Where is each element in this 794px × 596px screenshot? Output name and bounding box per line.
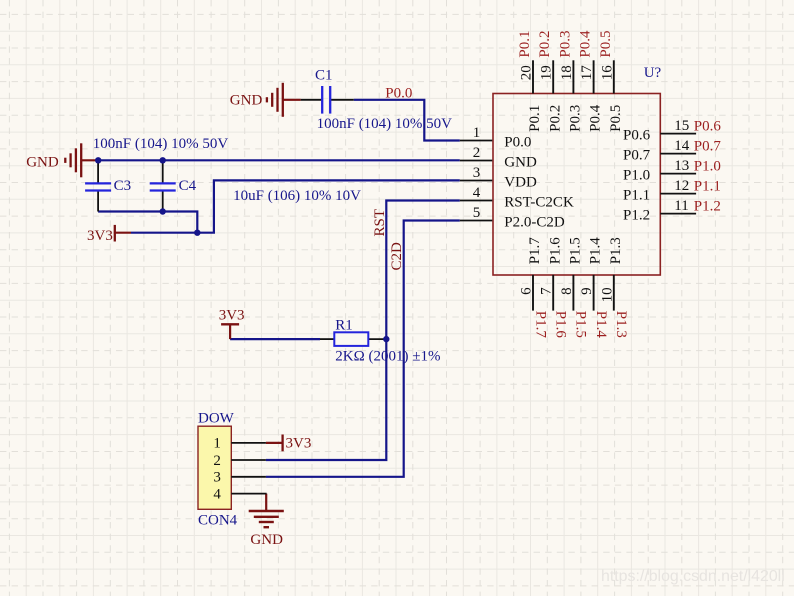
svg-text:P0.6: P0.6 bbox=[694, 119, 722, 135]
svg-text:10uF (106) 10% 10V: 10uF (106) 10% 10V bbox=[233, 188, 361, 204]
svg-text:CON4: CON4 bbox=[198, 513, 238, 529]
svg-text:5: 5 bbox=[473, 205, 481, 221]
svg-text:P0.4: P0.4 bbox=[588, 104, 604, 132]
svg-text:C3: C3 bbox=[114, 178, 132, 194]
svg-text:P0.2: P0.2 bbox=[547, 105, 563, 132]
svg-text:RST: RST bbox=[372, 209, 388, 237]
svg-text:GND: GND bbox=[504, 155, 537, 171]
svg-text:P1.0: P1.0 bbox=[623, 168, 650, 184]
svg-text:P0.4: P0.4 bbox=[578, 30, 594, 58]
svg-text:GND: GND bbox=[26, 154, 59, 170]
svg-text:P0.7: P0.7 bbox=[694, 139, 722, 155]
svg-text:3V3: 3V3 bbox=[219, 308, 245, 324]
svg-text:C2D: C2D bbox=[389, 242, 405, 271]
svg-text:3: 3 bbox=[213, 470, 221, 486]
svg-text:U?: U? bbox=[644, 65, 662, 81]
svg-text:RST-C2CK: RST-C2CK bbox=[504, 195, 574, 211]
svg-text:3: 3 bbox=[473, 165, 481, 181]
svg-text:100nF (104) 10% 50V: 100nF (104) 10% 50V bbox=[93, 136, 229, 152]
svg-text:P1.0: P1.0 bbox=[694, 159, 721, 175]
svg-text:P1.1: P1.1 bbox=[623, 188, 650, 204]
svg-text:19: 19 bbox=[539, 65, 555, 80]
svg-text:P0.2: P0.2 bbox=[537, 31, 553, 58]
svg-text:3V3: 3V3 bbox=[87, 228, 113, 244]
svg-text:8: 8 bbox=[559, 287, 575, 295]
svg-text:P1.1: P1.1 bbox=[694, 179, 721, 195]
svg-text:3V3: 3V3 bbox=[286, 436, 312, 452]
svg-text:20: 20 bbox=[519, 65, 535, 80]
svg-text:P1.2: P1.2 bbox=[623, 208, 650, 224]
svg-text:GND: GND bbox=[250, 532, 283, 548]
svg-text:P0.6: P0.6 bbox=[623, 128, 651, 144]
svg-text:6: 6 bbox=[519, 287, 535, 295]
svg-text:2: 2 bbox=[213, 453, 221, 469]
svg-text:P1.6: P1.6 bbox=[553, 311, 569, 339]
svg-text:15: 15 bbox=[674, 118, 689, 134]
svg-text:4: 4 bbox=[473, 185, 481, 201]
svg-text:P1.6: P1.6 bbox=[547, 237, 563, 265]
svg-text:9: 9 bbox=[579, 287, 595, 295]
svg-text:2: 2 bbox=[473, 145, 481, 161]
svg-text:VDD: VDD bbox=[504, 175, 537, 191]
svg-text:12: 12 bbox=[674, 178, 689, 194]
svg-text:10: 10 bbox=[599, 287, 615, 302]
svg-text:11: 11 bbox=[674, 198, 688, 214]
svg-text:P0.0: P0.0 bbox=[504, 135, 531, 151]
svg-text:P1.5: P1.5 bbox=[568, 237, 584, 264]
svg-text:GND: GND bbox=[230, 92, 263, 108]
svg-text:P1.4: P1.4 bbox=[593, 311, 609, 339]
svg-text:https://blog.csdn.net/l420ll: https://blog.csdn.net/l420ll bbox=[601, 568, 785, 585]
svg-text:1: 1 bbox=[473, 125, 481, 141]
svg-text:P0.1: P0.1 bbox=[527, 105, 543, 132]
svg-text:P1.7: P1.7 bbox=[527, 237, 543, 265]
svg-text:DOW: DOW bbox=[198, 411, 235, 427]
svg-text:P1.5: P1.5 bbox=[573, 311, 589, 338]
svg-text:P1.3: P1.3 bbox=[608, 237, 624, 264]
svg-text:P0.5: P0.5 bbox=[598, 31, 614, 58]
svg-text:17: 17 bbox=[579, 65, 595, 81]
svg-text:P0.0: P0.0 bbox=[385, 86, 412, 102]
svg-text:P0.3: P0.3 bbox=[568, 105, 584, 132]
svg-text:P2.0-C2D: P2.0-C2D bbox=[504, 215, 565, 231]
svg-text:1: 1 bbox=[213, 436, 221, 452]
svg-text:C4: C4 bbox=[179, 178, 197, 194]
svg-text:16: 16 bbox=[599, 65, 615, 81]
svg-text:P1.4: P1.4 bbox=[588, 237, 604, 265]
svg-text:100nF (104) 10% 50V: 100nF (104) 10% 50V bbox=[317, 116, 453, 132]
svg-text:R1: R1 bbox=[335, 318, 353, 334]
svg-text:P0.7: P0.7 bbox=[623, 148, 651, 164]
svg-text:4: 4 bbox=[213, 486, 221, 502]
svg-text:P0.5: P0.5 bbox=[608, 105, 624, 132]
svg-text:18: 18 bbox=[559, 65, 575, 80]
svg-text:P0.3: P0.3 bbox=[557, 31, 573, 58]
svg-text:7: 7 bbox=[539, 287, 555, 295]
svg-text:P0.1: P0.1 bbox=[517, 31, 533, 58]
svg-text:P1.2: P1.2 bbox=[694, 199, 721, 215]
svg-text:P1.7: P1.7 bbox=[532, 311, 548, 339]
svg-text:14: 14 bbox=[674, 138, 690, 154]
svg-text:13: 13 bbox=[674, 158, 689, 174]
svg-text:C1: C1 bbox=[315, 68, 333, 84]
svg-text:2KΩ (2001) ±1%: 2KΩ (2001) ±1% bbox=[335, 348, 440, 364]
svg-text:P1.3: P1.3 bbox=[613, 311, 629, 338]
